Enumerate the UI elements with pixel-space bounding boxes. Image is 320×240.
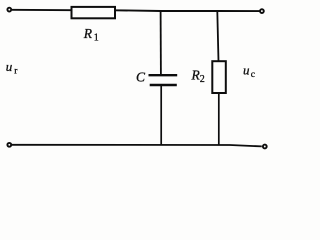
terminal: top-left input — [7, 8, 11, 12]
resistor R2 — [212, 61, 226, 93]
wire: R2 branch lower (R2 down to bottom wire) — [218, 93, 220, 145]
svg-text:2: 2 — [200, 74, 205, 85]
svg-text:R: R — [83, 26, 93, 41]
terminal: top-right output — [260, 9, 264, 13]
wire: bottom rail — [12, 145, 262, 147]
capacitor C — [149, 74, 178, 76]
wire: C branch lower (capacitor down to bottom wire) — [160, 86, 162, 145]
terminal: bottom-right — [263, 145, 267, 149]
wire: R2 branch upper (top wire down to R2) — [217, 11, 218, 62]
svg-text:c: c — [251, 70, 255, 80]
wire: C branch upper (from junction node on top wire down to capacitor) — [160, 11, 162, 74]
svg-text:u: u — [6, 59, 13, 74]
wire: R1 to top-right terminal — [115, 9, 260, 12]
svg-text:1: 1 — [94, 33, 99, 44]
svg-text:u: u — [243, 63, 250, 78]
wire: top-left terminal to R1 — [12, 9, 72, 11]
svg-text:C: C — [136, 69, 146, 84]
terminal: bottom-left — [7, 143, 11, 147]
resistor R1 — [72, 7, 116, 18]
